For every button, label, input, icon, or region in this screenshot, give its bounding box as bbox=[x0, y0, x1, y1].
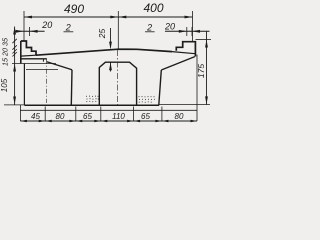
node bottom dim arrows bbox=[20, 120, 197, 123]
svg-text:2: 2 bbox=[65, 23, 71, 33]
node right extension line x192.5 bbox=[192, 11, 194, 42]
svg-text:175: 175 bbox=[196, 64, 206, 78]
node left curb profile bbox=[21, 41, 36, 55]
stipple dots left patch bbox=[86, 96, 99, 103]
wire left haunch bbox=[47, 62, 72, 70]
wire arrow 20L b bbox=[30, 30, 38, 33]
wire right soffit haunch bbox=[161, 57, 195, 70]
svg-text:25: 25 bbox=[97, 29, 107, 40]
node tick y47.5 bbox=[12, 45, 16, 49]
svg-text:65: 65 bbox=[83, 112, 92, 121]
svg-text:2: 2 bbox=[146, 23, 152, 33]
node left vertical dim line x14.6 upper bbox=[14, 27, 16, 64]
node centerline main dash-dot bbox=[117, 50, 119, 106]
node rib centerline left bbox=[46, 59, 48, 103]
wire arrow 175 bottom bbox=[205, 96, 208, 104]
wire bottom dim line bbox=[20, 120, 197, 122]
node left edge bbox=[20, 41, 22, 63]
wire arrow 400 right bbox=[185, 16, 193, 19]
node channel walls and chamfered top bbox=[99, 62, 136, 105]
wire bottom edge bbox=[24, 104, 159, 106]
wire ext line y69.4 bbox=[26, 68, 58, 70]
wire arrow 490 left bbox=[24, 16, 32, 19]
svg-text:45: 45 bbox=[31, 112, 40, 121]
svg-text:65: 65 bbox=[141, 112, 150, 121]
wire right web inner face bbox=[159, 70, 162, 105]
wire arrow 400 left bbox=[118, 16, 126, 19]
svg-text:400: 400 bbox=[143, 1, 163, 15]
node stub a bbox=[42, 59, 44, 62]
wire arrow 105 bottom bbox=[13, 97, 16, 105]
svg-text:20: 20 bbox=[41, 20, 52, 30]
node right curb profile bbox=[176, 42, 195, 57]
wire right 20 dim line bbox=[165, 30, 210, 32]
wire left 105 dim line bbox=[14, 64, 16, 105]
wire left web outer face bbox=[23, 63, 25, 105]
svg-text:490: 490 bbox=[64, 2, 84, 16]
wire ext line top right y39.5 bbox=[196, 39, 212, 41]
wire slope underline right bbox=[145, 31, 155, 33]
wire arrow 20L a bbox=[16, 30, 24, 33]
wire ext line bottom right y104.4 bbox=[159, 104, 210, 106]
svg-text:105: 105 bbox=[0, 78, 9, 92]
svg-text:20: 20 bbox=[164, 22, 175, 32]
node ext x186.8 bbox=[186, 27, 188, 36]
wire deck seat line left bbox=[21, 54, 36, 57]
wire left 20 dim line bbox=[15, 30, 45, 32]
wire 25 tail inside bbox=[110, 62, 112, 71]
wire left web inner face bbox=[70, 70, 73, 105]
wire arrow 490 right bbox=[110, 16, 118, 19]
node left extension line x24 bbox=[23, 11, 25, 41]
wire arrow 25 down bbox=[109, 42, 112, 50]
wire ext line y103.8 left bbox=[4, 104, 24, 106]
wire arrow 20R b bbox=[192, 30, 200, 33]
wire deck surface bbox=[36, 49, 172, 55]
node bottom ext lines bbox=[20, 55, 197, 122]
svg-text:110: 110 bbox=[112, 112, 125, 121]
wire right 175 dim line bbox=[206, 31, 208, 104]
svg-text:80: 80 bbox=[175, 112, 184, 121]
node ext x29.6 bbox=[29, 27, 31, 36]
wire ext line y63.5 bbox=[12, 63, 56, 65]
wire deck seat line right bbox=[172, 52, 195, 54]
wire slope underline left bbox=[64, 31, 74, 33]
node center extension line x118 bbox=[117, 11, 119, 49]
node tick y54.3 bbox=[12, 52, 16, 56]
wire arrow 25 up bbox=[109, 62, 112, 70]
node ext x192 bbox=[191, 27, 193, 36]
wire 25 dim line bbox=[110, 28, 112, 47]
wire arrow 175 top bbox=[205, 40, 208, 48]
node tick y41 bbox=[12, 39, 16, 43]
svg-text:15 20 35: 15 20 35 bbox=[0, 37, 9, 66]
wire top dim line 490/400 bbox=[24, 16, 193, 18]
svg-text:80: 80 bbox=[56, 112, 65, 121]
node tick y51.3 bbox=[12, 49, 16, 53]
wire arrow up at top of left dim bbox=[13, 27, 16, 35]
wire left soffit bbox=[21, 58, 47, 60]
wire arrow 20R a bbox=[179, 30, 187, 33]
stipple dots right patch bbox=[139, 96, 156, 103]
wire bottom band upper rule bbox=[20, 109, 197, 111]
wire arrow 105 top bbox=[13, 64, 16, 72]
